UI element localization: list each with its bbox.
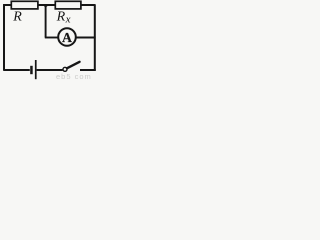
resistor R: [11, 1, 38, 9]
wire: ammeter left lead: [45, 37, 59, 39]
svg-text:A: A: [62, 30, 72, 45]
svg-text:R: R: [12, 10, 22, 25]
svg-text:eb5 com: eb5 com: [56, 72, 92, 80]
node junction: [44, 4, 47, 7]
wire: middle vertical: [45, 5, 47, 38]
wire: bottom-left segment: [4, 69, 30, 71]
switch S blade: [67, 62, 80, 69]
wire: top-left segment: [3, 4, 11, 6]
wire: left vertical: [3, 4, 5, 71]
wire: bottom middle segment: [37, 69, 63, 71]
wire: top-right segment: [81, 4, 95, 6]
background: [0, 0, 99, 80]
battery positive plate (long thin): [35, 60, 37, 79]
battery negative plate (short thick): [30, 66, 33, 74]
ammeter U1: [58, 28, 76, 46]
wire: top middle segment: [38, 4, 55, 6]
switch S pivot: [63, 67, 67, 71]
wire: right vertical: [94, 4, 96, 71]
resistor Rx: [55, 1, 81, 9]
wire: ammeter right lead: [76, 37, 96, 39]
wire: bottom-right segment: [80, 69, 96, 71]
